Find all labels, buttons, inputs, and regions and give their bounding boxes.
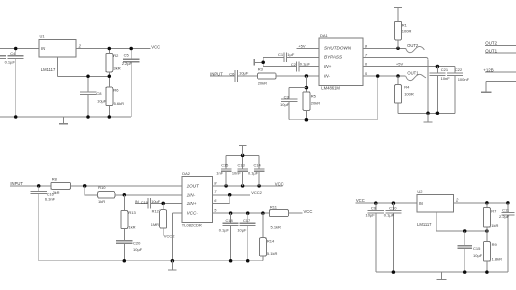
svg-text:C15: C15: [473, 246, 481, 251]
svg-text:1IN+: 1IN+: [187, 201, 197, 206]
svg-text:R13: R13: [128, 210, 136, 215]
svg-text:+5V: +5V: [298, 44, 306, 49]
svg-text:VCC: VCC: [356, 198, 365, 203]
svg-text:0.1µF: 0.1µF: [219, 227, 230, 232]
svg-text:C1: C1: [278, 52, 284, 57]
svg-text:1.8kR: 1.8kR: [492, 256, 503, 261]
svg-text:C3: C3: [284, 94, 290, 99]
svg-text:C9: C9: [371, 206, 377, 211]
svg-text:R7: R7: [491, 209, 497, 214]
svg-text:100nF: 100nF: [458, 77, 470, 82]
svg-text:10nF: 10nF: [441, 76, 451, 81]
svg-text:OUT1: OUT1: [485, 48, 497, 53]
svg-text:1µF: 1µF: [287, 52, 295, 57]
svg-text:1MR: 1MR: [151, 222, 159, 227]
svg-text:C19: C19: [141, 200, 148, 205]
svg-text:2.2µF: 2.2µF: [122, 61, 133, 66]
svg-text:0.1µF: 0.1µF: [384, 213, 395, 218]
svg-text:VCC-: VCC-: [187, 211, 199, 216]
svg-text:C6: C6: [229, 71, 235, 76]
svg-text:VCC: VCC: [304, 209, 313, 214]
svg-text:C11: C11: [502, 208, 510, 213]
svg-text:DA1: DA1: [320, 33, 329, 38]
svg-text:C8: C8: [96, 91, 102, 96]
svg-text:BYPASS: BYPASS: [324, 55, 343, 60]
svg-text:C10: C10: [389, 206, 397, 211]
svg-text:VCC2: VCC2: [164, 234, 175, 239]
svg-text:VCC2: VCC2: [251, 190, 262, 195]
svg-text:R5: R5: [311, 94, 317, 99]
svg-text:SHUTDOWN: SHUTDOWN: [324, 46, 352, 51]
svg-text:C17: C17: [243, 218, 250, 223]
svg-text:100R: 100R: [402, 28, 412, 33]
svg-text:10µF: 10µF: [237, 227, 247, 232]
svg-text:1kR: 1kR: [128, 224, 135, 229]
svg-text:R6: R6: [113, 88, 119, 93]
svg-text:3kR: 3kR: [114, 66, 121, 71]
svg-text:C22: C22: [455, 67, 463, 72]
svg-text:100R: 100R: [404, 91, 414, 96]
svg-text:LM1117: LM1117: [41, 67, 56, 72]
svg-text:10µF: 10µF: [97, 99, 107, 104]
svg-text:LM4861M: LM4861M: [321, 85, 340, 90]
svg-text:1kR: 1kR: [98, 199, 105, 204]
svg-text:DA2: DA2: [182, 171, 191, 176]
svg-text:R11: R11: [270, 205, 278, 210]
svg-text:C21: C21: [441, 67, 449, 72]
svg-text:0.1µF: 0.1µF: [300, 62, 311, 67]
svg-text:10µF: 10µF: [473, 253, 483, 258]
svg-text:10µF: 10µF: [280, 102, 290, 107]
svg-text:10µF: 10µF: [366, 213, 376, 218]
svg-text:5.6kR: 5.6kR: [114, 101, 125, 106]
svg-text:C13: C13: [238, 163, 245, 168]
svg-text:20kR: 20kR: [311, 101, 320, 106]
svg-text:C20: C20: [133, 240, 141, 245]
svg-text:R4: R4: [404, 85, 410, 90]
svg-text:C15: C15: [221, 163, 228, 168]
svg-text:IN+: IN+: [324, 64, 332, 69]
svg-text:5.1kR: 5.1kR: [267, 251, 278, 256]
svg-text:0.1µF: 0.1µF: [5, 59, 16, 64]
svg-text:LM1117: LM1117: [417, 222, 432, 227]
svg-text:C18: C18: [226, 218, 233, 223]
svg-text:R9: R9: [492, 242, 498, 247]
svg-text:U1: U1: [40, 34, 46, 39]
svg-text:5.1kR: 5.1kR: [271, 225, 282, 230]
svg-text:3kR: 3kR: [53, 191, 60, 195]
svg-text:R2: R2: [113, 53, 119, 58]
svg-text:10µF: 10µF: [133, 247, 143, 252]
svg-text:C4: C4: [10, 51, 16, 56]
svg-text:6.3nF: 6.3nF: [45, 196, 56, 201]
svg-text:R8: R8: [52, 176, 58, 181]
svg-text:1nF: 1nF: [216, 171, 223, 176]
svg-text:10µF: 10µF: [239, 70, 249, 75]
svg-text:VCC: VCC: [151, 44, 160, 49]
svg-text:2.2µF: 2.2µF: [499, 214, 510, 219]
svg-text:IN-: IN-: [324, 73, 331, 78]
svg-text:20kR: 20kR: [258, 81, 267, 86]
svg-text:+5V: +5V: [396, 62, 404, 67]
svg-text:C2: C2: [291, 62, 297, 67]
svg-text:U2: U2: [417, 189, 423, 194]
svg-text:R12: R12: [152, 208, 159, 213]
svg-text:1OUT: 1OUT: [187, 184, 200, 189]
svg-text:R10: R10: [98, 185, 106, 190]
svg-text:0.1µF: 0.1µF: [248, 171, 259, 176]
svg-text:R1: R1: [402, 23, 408, 28]
svg-text:C5: C5: [124, 53, 130, 58]
svg-text:1IN-: 1IN-: [187, 193, 196, 198]
svg-text:10nF: 10nF: [232, 171, 241, 176]
svg-text:TL082CDR: TL082CDR: [182, 223, 202, 228]
svg-text:1kR: 1kR: [491, 223, 498, 228]
svg-text:R14: R14: [267, 238, 275, 243]
svg-text:VCC: VCC: [275, 181, 284, 186]
svg-text:R3: R3: [258, 67, 264, 72]
svg-text:C14: C14: [254, 163, 262, 168]
